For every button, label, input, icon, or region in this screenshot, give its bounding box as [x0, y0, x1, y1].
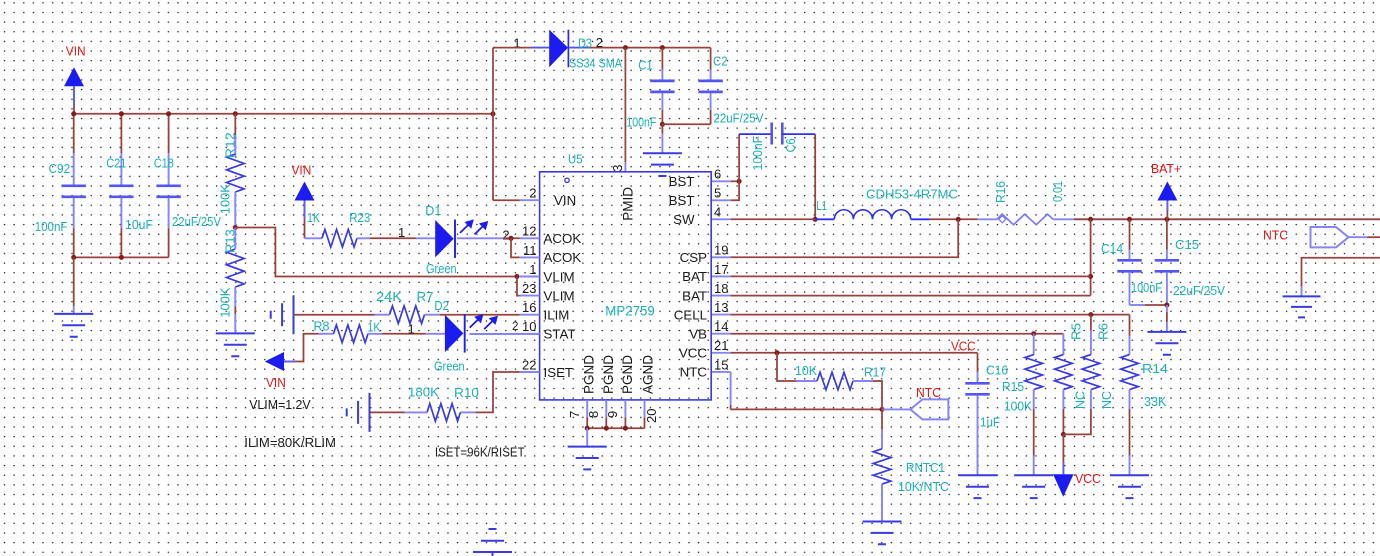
svg-text:STAT: STAT — [544, 327, 576, 342]
svg-text:100K: 100K — [1004, 399, 1032, 414]
svg-text:VIN: VIN — [266, 375, 286, 390]
svg-text:C6: C6 — [783, 138, 798, 152]
svg-text:VIN: VIN — [66, 44, 86, 59]
svg-text:1K: 1K — [307, 210, 320, 225]
svg-text:C14: C14 — [1101, 241, 1123, 256]
svg-text:22: 22 — [522, 357, 536, 372]
svg-text:D1: D1 — [425, 203, 441, 218]
svg-text:R17: R17 — [864, 365, 886, 380]
svg-text:17: 17 — [714, 262, 728, 277]
svg-text:R13: R13 — [223, 229, 238, 253]
svg-text:CSP: CSP — [680, 250, 707, 265]
svg-text:BAT: BAT — [682, 269, 707, 284]
svg-text:R10: R10 — [454, 385, 479, 400]
svg-text:100nF: 100nF — [750, 136, 765, 171]
svg-text:R5: R5 — [1069, 323, 1084, 340]
svg-text:U5: U5 — [568, 152, 583, 167]
svg-text:Green: Green — [434, 359, 465, 374]
svg-text:22uF/25V: 22uF/25V — [713, 111, 763, 126]
svg-text:C21: C21 — [106, 156, 126, 171]
svg-text:R12: R12 — [223, 132, 238, 158]
svg-text:C16: C16 — [986, 363, 1008, 378]
svg-text:13: 13 — [714, 300, 728, 315]
svg-text:12: 12 — [522, 224, 536, 239]
svg-text:SW: SW — [673, 212, 695, 227]
svg-text:C18: C18 — [154, 156, 174, 171]
svg-text:VLIM: VLIM — [544, 269, 575, 284]
svg-text:ISET=96K/RISET: ISET=96K/RISET — [435, 444, 525, 459]
svg-text:5: 5 — [714, 186, 721, 201]
svg-text:100nF: 100nF — [35, 219, 68, 234]
svg-text:23: 23 — [522, 281, 536, 296]
svg-text:BAT+: BAT+ — [1151, 161, 1181, 176]
svg-text:R23: R23 — [349, 210, 370, 225]
svg-text:PGND: PGND — [582, 355, 597, 394]
svg-text:22uF/25V: 22uF/25V — [1173, 283, 1225, 298]
svg-text:CDH53-4R7MC: CDH53-4R7MC — [866, 187, 958, 202]
svg-text:16: 16 — [522, 300, 536, 315]
svg-text:R8: R8 — [314, 318, 330, 333]
svg-text:R7: R7 — [417, 289, 434, 304]
svg-text:100nF: 100nF — [1131, 280, 1162, 295]
svg-text:NTC: NTC — [916, 385, 941, 400]
svg-text:24K: 24K — [376, 289, 402, 304]
svg-text:9: 9 — [605, 411, 620, 418]
svg-text:100K: 100K — [217, 287, 232, 317]
svg-text:VCC: VCC — [951, 339, 976, 354]
svg-text:1: 1 — [408, 322, 415, 337]
svg-text:0.01: 0.01 — [1050, 181, 1065, 202]
svg-text:Green: Green — [426, 261, 457, 276]
svg-text:VCC: VCC — [679, 346, 707, 361]
svg-text:19: 19 — [714, 243, 728, 258]
svg-text:14: 14 — [714, 319, 728, 334]
svg-text:BAT: BAT — [682, 288, 707, 303]
svg-text:22uF/25V: 22uF/25V — [172, 214, 221, 229]
svg-text:VB: VB — [689, 327, 707, 342]
svg-text:10uF: 10uF — [125, 217, 153, 232]
svg-text:MP2759: MP2759 — [605, 303, 655, 319]
svg-text:R14: R14 — [1142, 361, 1168, 376]
svg-text:PMID: PMID — [621, 187, 636, 221]
svg-text:C92: C92 — [49, 161, 71, 176]
svg-text:NC: NC — [1099, 391, 1114, 409]
svg-text:180K: 180K — [408, 385, 439, 400]
svg-text:1K: 1K — [368, 320, 381, 335]
svg-text:2: 2 — [529, 186, 536, 201]
svg-text:PGND: PGND — [601, 355, 616, 394]
svg-text:11: 11 — [523, 243, 537, 258]
svg-text:6: 6 — [714, 167, 721, 182]
svg-text:VIN: VIN — [292, 163, 312, 178]
svg-text:CELL: CELL — [674, 307, 707, 322]
svg-text:15: 15 — [714, 357, 728, 372]
svg-text:RNTC1: RNTC1 — [906, 460, 945, 475]
svg-text:R16: R16 — [993, 181, 1008, 203]
svg-text:AGND: AGND — [640, 355, 655, 394]
svg-text:1: 1 — [398, 225, 405, 240]
svg-text:C2: C2 — [713, 54, 728, 69]
svg-text:ILIM=80K/RLIM: ILIM=80K/RLIM — [244, 435, 336, 450]
svg-text:20: 20 — [644, 409, 659, 423]
svg-text:PGND: PGND — [620, 355, 635, 394]
svg-text:10K/NTC: 10K/NTC — [898, 479, 949, 494]
svg-text:10: 10 — [522, 319, 536, 334]
svg-text:ISET: ISET — [544, 365, 574, 380]
svg-text:18: 18 — [714, 281, 728, 296]
svg-text:D3: D3 — [578, 36, 592, 51]
svg-text:100nF: 100nF — [626, 115, 656, 130]
svg-text:VCC: VCC — [1075, 471, 1101, 486]
svg-text:1uF: 1uF — [980, 415, 1000, 430]
svg-text:33K: 33K — [1144, 394, 1167, 409]
svg-text:D2: D2 — [434, 298, 449, 313]
svg-text:2: 2 — [596, 35, 603, 50]
svg-text:2: 2 — [512, 321, 518, 333]
svg-text:7: 7 — [567, 411, 582, 418]
svg-text:3: 3 — [610, 165, 625, 172]
svg-text:VLIM: VLIM — [544, 288, 575, 303]
svg-text:10K: 10K — [795, 363, 817, 378]
svg-text:SS34 SMA: SS34 SMA — [569, 55, 622, 70]
svg-text:NTC: NTC — [680, 365, 708, 380]
svg-text:ILIM: ILIM — [544, 308, 570, 323]
svg-text:21: 21 — [714, 338, 728, 353]
svg-text:R6: R6 — [1096, 323, 1111, 340]
svg-text:NC: NC — [1073, 391, 1088, 409]
svg-text:R15: R15 — [1002, 379, 1024, 394]
svg-text:BST: BST — [669, 174, 695, 189]
svg-text:C1: C1 — [638, 57, 653, 72]
svg-text:100K: 100K — [217, 184, 232, 214]
svg-text:L1: L1 — [816, 198, 827, 213]
svg-text:2: 2 — [502, 227, 509, 242]
svg-text:NTC: NTC — [1263, 228, 1288, 243]
svg-text:ACOK: ACOK — [544, 250, 582, 265]
svg-text:8: 8 — [586, 411, 601, 418]
svg-text:C15: C15 — [1175, 237, 1199, 252]
svg-text:4: 4 — [714, 205, 721, 220]
svg-text:ACOK: ACOK — [544, 231, 582, 246]
svg-text:BST: BST — [669, 193, 695, 208]
svg-text:VLIM=1.2V: VLIM=1.2V — [249, 397, 311, 412]
svg-text:1: 1 — [529, 262, 536, 277]
svg-text:VIN: VIN — [554, 193, 576, 208]
